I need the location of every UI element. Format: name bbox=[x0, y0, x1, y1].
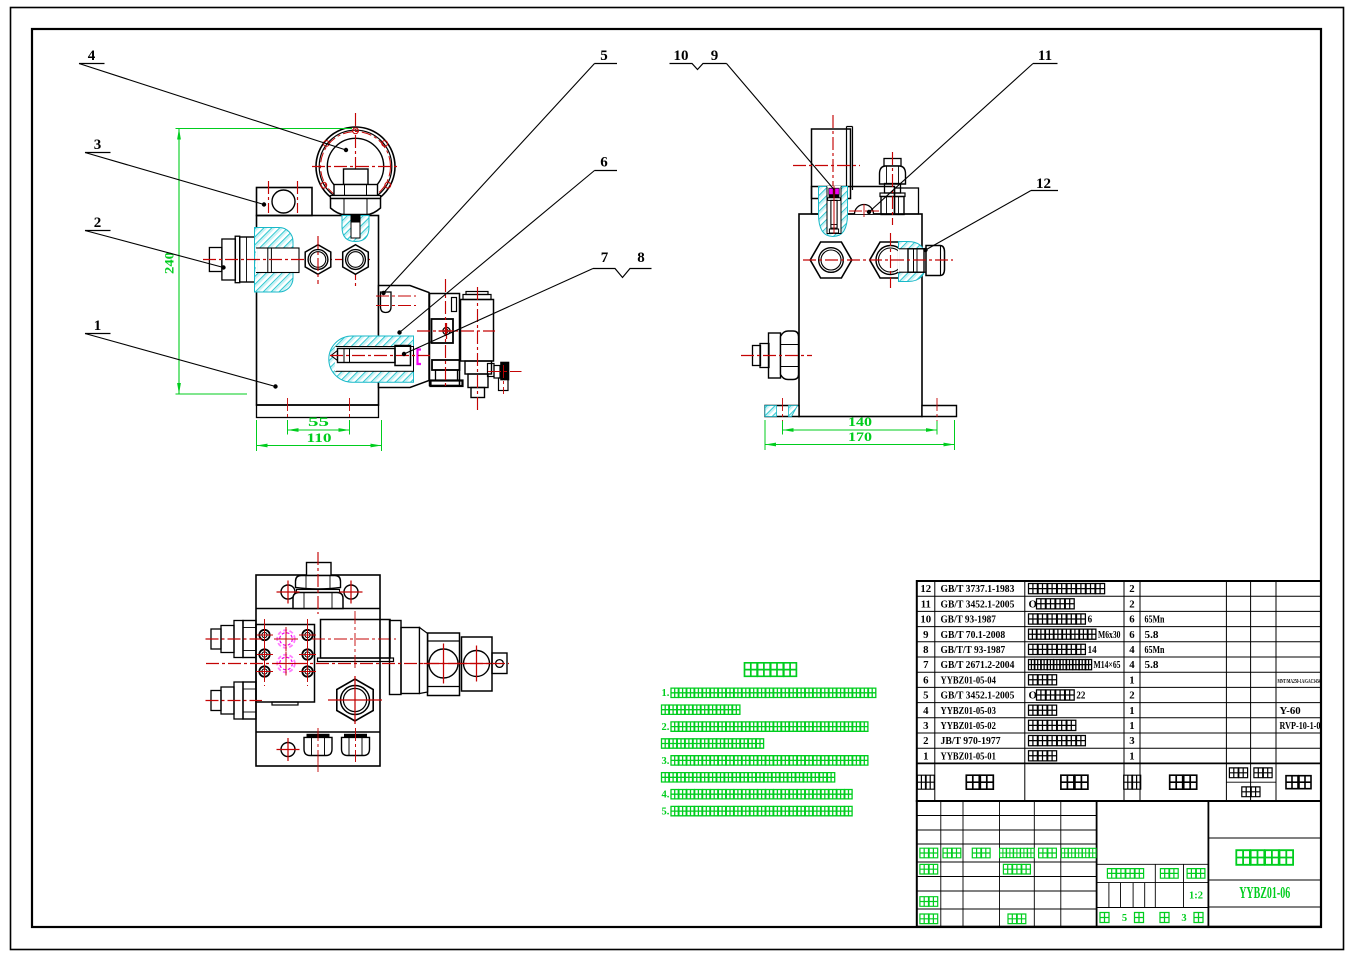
centerline through nuts and fitting bbox=[803, 259, 953, 261]
svg-text:GB/T 93-1987: GB/T 93-1987 bbox=[941, 614, 997, 626]
drawing title (green) bbox=[1236, 850, 1293, 865]
title block right section bbox=[1208, 837, 1321, 839]
side view: top step bbox=[812, 187, 895, 215]
svg-text:1:2: 1:2 bbox=[1189, 891, 1203, 902]
pressure gauge (item 4): bezel circles bbox=[316, 127, 395, 206]
svg-text:10: 10 bbox=[920, 614, 931, 626]
straight pipe fitting (item 12) bbox=[908, 249, 924, 272]
center hex port bbox=[337, 679, 373, 721]
stage mark / weight / scale labels (green) bbox=[1107, 869, 1143, 879]
hump port on step top (item 11 leader) bbox=[855, 205, 874, 215]
dimension 140 bbox=[782, 421, 784, 435]
svg-text:1: 1 bbox=[1129, 674, 1134, 686]
BOM header labels bbox=[917, 775, 934, 789]
six mounting bolt holes bbox=[259, 630, 269, 640]
svg-text:140: 140 bbox=[848, 414, 872, 429]
svg-text:65Mn: 65Mn bbox=[1145, 614, 1165, 626]
svg-text:3: 3 bbox=[923, 720, 929, 732]
svg-text:YYBZ01-05-01: YYBZ01-05-01 bbox=[941, 750, 996, 762]
svg-text:5: 5 bbox=[1122, 913, 1127, 924]
pressure gauge: red bolt circle (dashed) bbox=[321, 132, 391, 202]
centerlines of valve bodies bbox=[445, 279, 447, 386]
relief valve body (item 6) bbox=[466, 292, 488, 295]
svg-text:9: 9 bbox=[923, 629, 929, 641]
valve mounting plate (top view) bbox=[321, 620, 391, 659]
sheet count row (green) bbox=[1100, 913, 1109, 923]
small port circles on top strip bbox=[281, 585, 295, 599]
revision header labels (green) bbox=[920, 848, 938, 858]
check+relief valve train (top view) bbox=[390, 621, 402, 695]
svg-text:8: 8 bbox=[923, 644, 929, 656]
svg-text:22: 22 bbox=[1076, 690, 1085, 702]
svg-text:1: 1 bbox=[1129, 720, 1134, 732]
red stubs at base for dims bbox=[287, 398, 289, 420]
side bolt on left face bbox=[753, 346, 761, 366]
pressure gauge: centerlines bbox=[355, 113, 357, 289]
red stubs at side base bbox=[782, 398, 784, 422]
svg-text:6: 6 bbox=[1088, 614, 1093, 626]
bracket centerlines bbox=[832, 115, 834, 236]
svg-text:JB/T 970-1977: JB/T 970-1977 bbox=[941, 735, 1002, 747]
svg-text:MNT/MA250-1A/GAC3434: MNT/MA250-1A/GAC3434 bbox=[1278, 678, 1321, 685]
side view: base flange tabs bbox=[765, 406, 799, 417]
svg-text:4: 4 bbox=[923, 705, 929, 717]
front view: top step of block bbox=[257, 188, 313, 216]
designer/checker labels (green) bbox=[920, 864, 938, 874]
svg-text:GB/T 3737.1-1983: GB/T 3737.1-1983 bbox=[941, 583, 1015, 595]
svg-text:3: 3 bbox=[94, 137, 102, 153]
svg-text:2: 2 bbox=[923, 735, 928, 747]
title block middle section bbox=[1097, 863, 1209, 865]
magenta O-ring at bolt head bbox=[418, 350, 422, 365]
svg-text:YYBZ01-06: YYBZ01-06 bbox=[1239, 883, 1290, 902]
svg-text:4.: 4. bbox=[662, 790, 670, 801]
front view: integrated block (item 1) bbox=[257, 216, 379, 406]
svg-text:5.8: 5.8 bbox=[1145, 659, 1160, 671]
svg-text:8: 8 bbox=[637, 250, 645, 266]
check valve body bbox=[430, 294, 460, 386]
hex plug bolt at left of block (item 2 leader) bbox=[209, 248, 222, 272]
svg-text:RVP-10-1-0: RVP-10-1-0 bbox=[1280, 720, 1321, 732]
dimension 240 (vertical) bbox=[178, 129, 180, 395]
fitting hex head bbox=[926, 246, 945, 276]
bolt pocket hatch (items 7/8) bbox=[329, 336, 414, 382]
svg-text:9: 9 bbox=[711, 48, 719, 64]
svg-text:12: 12 bbox=[920, 583, 931, 595]
svg-text:2: 2 bbox=[1129, 690, 1134, 702]
svg-text:6: 6 bbox=[1129, 629, 1135, 641]
svg-text:2: 2 bbox=[1129, 598, 1134, 610]
pressure gauge stem and nuts bbox=[344, 169, 369, 185]
svg-text:11: 11 bbox=[1038, 48, 1052, 64]
svg-text:GB/T 3452.1-2005: GB/T 3452.1-2005 bbox=[941, 690, 1015, 702]
mounting bracket on top bbox=[812, 129, 851, 199]
svg-text:240: 240 bbox=[162, 252, 177, 274]
svg-text:4: 4 bbox=[1129, 659, 1135, 671]
check valve plate (item 3) bbox=[379, 286, 430, 388]
svg-text:YYBZ01-05-02: YYBZ01-05-02 bbox=[941, 720, 996, 732]
svg-text:O: O bbox=[1029, 598, 1037, 610]
svg-text:5: 5 bbox=[600, 48, 608, 64]
svg-text:GB/T/T 93-1987: GB/T/T 93-1987 bbox=[941, 644, 1006, 656]
svg-text:GB/T 2671.2-2004: GB/T 2671.2-2004 bbox=[941, 659, 1015, 671]
svg-text:GB/T 3452.1-2005: GB/T 3452.1-2005 bbox=[941, 598, 1015, 610]
svg-text:2: 2 bbox=[1129, 583, 1134, 595]
O-ring stub on block top right (item 5 leader) bbox=[381, 292, 392, 313]
svg-text:1: 1 bbox=[1129, 705, 1134, 717]
side view: right platform step bbox=[895, 188, 919, 214]
svg-text:GB/T 70.1-2008: GB/T 70.1-2008 bbox=[941, 629, 1006, 641]
svg-text:3: 3 bbox=[1181, 913, 1186, 924]
svg-text:4: 4 bbox=[88, 48, 96, 64]
title block grid bbox=[917, 801, 1321, 927]
svg-text:12: 12 bbox=[1036, 176, 1051, 192]
svg-text:2.: 2. bbox=[662, 722, 670, 733]
screw pocket hatch (items 9/10) bbox=[819, 187, 848, 237]
dimension 170 bbox=[764, 420, 766, 450]
BOM table grid bbox=[917, 581, 1321, 801]
socket screw M6x30 (item 9) with washer (item 10) bbox=[829, 188, 833, 194]
bottom strip nuts bbox=[307, 734, 330, 738]
two hex nuts on block front face bbox=[305, 245, 331, 275]
dimension 110 bbox=[256, 420, 258, 451]
svg-text:M6x30: M6x30 bbox=[1098, 629, 1121, 641]
svg-text:O: O bbox=[1029, 690, 1037, 702]
svg-text:1: 1 bbox=[1129, 750, 1134, 762]
centerline through plug bolt bbox=[203, 259, 370, 261]
long centerline of valve train bbox=[206, 663, 509, 665]
svg-text:YYBZ01-05-04: YYBZ01-05-04 bbox=[941, 674, 997, 686]
right port fittings of relief valve bbox=[488, 364, 495, 377]
base flange hatch patches bbox=[765, 406, 777, 417]
svg-text:65Mn: 65Mn bbox=[1145, 644, 1165, 656]
svg-text:1: 1 bbox=[94, 318, 102, 334]
svg-text:3.: 3. bbox=[662, 756, 670, 767]
svg-text:1.: 1. bbox=[662, 688, 670, 699]
svg-text:2: 2 bbox=[94, 215, 102, 231]
svg-text:11: 11 bbox=[921, 598, 931, 610]
svg-text:6: 6 bbox=[1129, 614, 1135, 626]
svg-text:6: 6 bbox=[600, 155, 608, 171]
gauge port hatch (O-ring seat) bbox=[342, 216, 369, 242]
check valve bottom flange bbox=[432, 360, 460, 370]
svg-text:3: 3 bbox=[1129, 735, 1135, 747]
socket head bolt in pocket (item 7) bbox=[331, 351, 338, 361]
fitting hatch (item 12 zone) bbox=[899, 242, 927, 282]
front view: centerlines of top step hole bbox=[268, 181, 270, 213]
svg-text:5.8: 5.8 bbox=[1145, 629, 1160, 641]
svg-text:5.: 5. bbox=[662, 807, 670, 818]
svg-text:YYBZ01-05-03: YYBZ01-05-03 bbox=[941, 705, 997, 717]
svg-text:7: 7 bbox=[923, 659, 929, 671]
side view: main block bbox=[799, 214, 922, 417]
svg-text:14: 14 bbox=[1088, 644, 1098, 656]
dimension 55 bbox=[287, 420, 289, 435]
left hex bolts (top view) bbox=[211, 629, 221, 649]
hex nuts on side view face bbox=[810, 242, 852, 278]
svg-text:M14×65: M14×65 bbox=[1094, 659, 1121, 671]
top view: block outline bbox=[256, 575, 380, 766]
pipe fitting stack on step (item 2) bbox=[884, 159, 901, 167]
svg-text:10: 10 bbox=[674, 48, 689, 64]
technical requirements title bbox=[745, 663, 797, 677]
svg-text:5: 5 bbox=[923, 690, 928, 702]
svg-text:55: 55 bbox=[308, 414, 330, 429]
left port hatch in block bbox=[255, 228, 294, 293]
svg-text:170: 170 bbox=[848, 429, 872, 444]
top view: bolt-pattern pocket bbox=[256, 625, 315, 703]
svg-text:1: 1 bbox=[923, 750, 928, 762]
svg-text:4: 4 bbox=[1129, 644, 1135, 656]
svg-text:6: 6 bbox=[923, 674, 929, 686]
svg-text:Y-60: Y-60 bbox=[1280, 705, 1301, 717]
svg-text:110: 110 bbox=[307, 430, 332, 445]
svg-text:7: 7 bbox=[601, 250, 609, 266]
magenta O-ring ports bbox=[277, 630, 295, 648]
centerline through bolt bbox=[330, 355, 430, 357]
